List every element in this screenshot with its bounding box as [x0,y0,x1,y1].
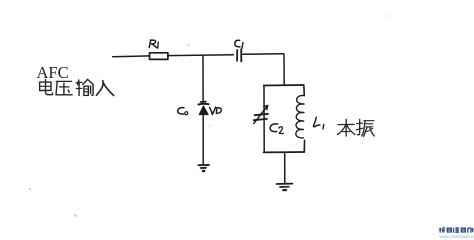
svg-text:www.cnvsdradio.cn: www.cnvsdradio.cn [440,234,474,239]
svg-text:AFC: AFC [37,63,69,82]
